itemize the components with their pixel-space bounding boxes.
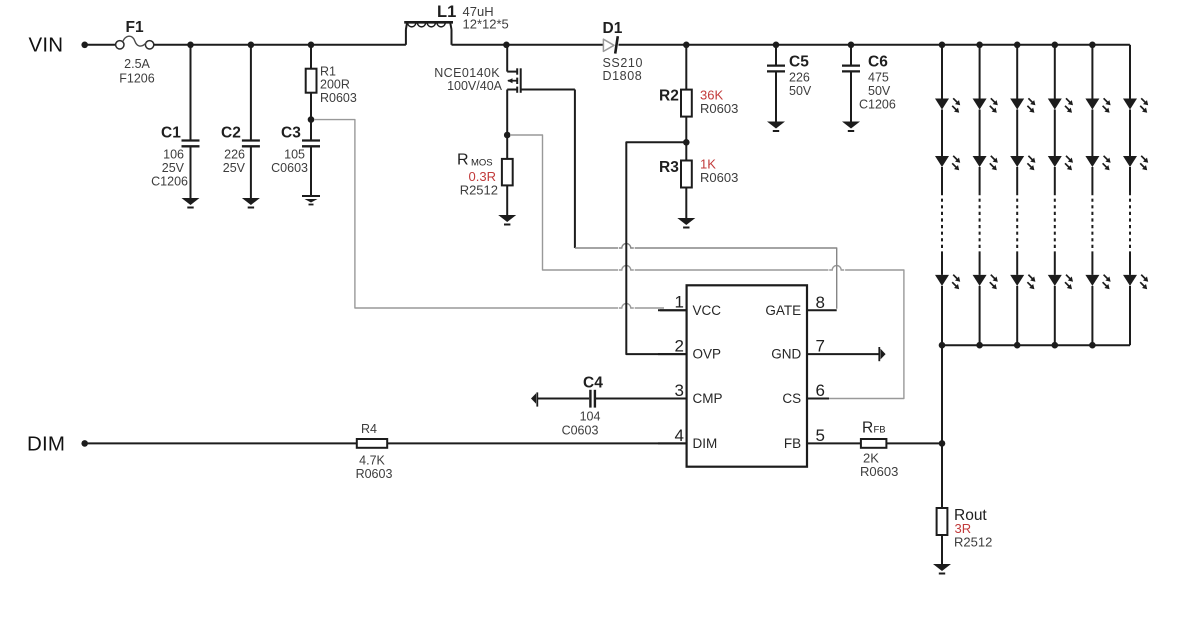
svg-text:VCC: VCC [693,303,722,318]
ground Rout [933,564,951,571]
junction node R1 [308,42,315,49]
LED D1c [935,275,949,286]
LED string 6 wire to dashed [1129,167,1131,192]
svg-text:D1: D1 [603,20,623,37]
svg-text:R0603: R0603 [700,101,738,116]
svg-text:GND: GND [771,347,801,362]
wire CS route (gray) Rmos node to pin 6 [510,135,618,270]
svg-text:25V: 25V [223,161,246,175]
svg-text:R: R [862,420,873,437]
diode D1 [603,39,614,51]
svg-text:R4: R4 [361,422,377,436]
LED string 1 wire top [941,45,943,99]
svg-text:4: 4 [675,426,684,445]
junction node C6 [848,42,855,49]
wire node to D1 anode [506,44,603,46]
svg-text:R0603: R0603 [320,91,357,105]
junction node bottom LED 5 [1089,342,1096,349]
wire pin1 stub black [660,309,687,311]
LED D4c [1048,275,1062,286]
junction node CS sense [504,132,511,139]
ground signal GND pin 7 [878,347,880,361]
LED D6c [1123,275,1137,286]
LED string 3 wire to dashed [1016,167,1018,192]
junction node top LED 2 [976,42,983,49]
LED string 2 wire top [979,45,981,99]
svg-text:226: 226 [224,148,245,162]
LED string 5 wire top [1091,45,1093,99]
svg-text:R: R [457,152,469,169]
LED string 2 wire to dashed [979,167,981,192]
svg-text:6: 6 [816,381,825,400]
wire L1 to MOSFET node [452,44,507,46]
U1 pin 2 stub [658,353,687,355]
LED string 5 dashed continuation [1091,192,1093,254]
svg-text:3: 3 [675,381,684,400]
wire VIN to fuse [85,44,116,46]
svg-text:C0603: C0603 [562,423,599,437]
junction node top LED 5 [1089,42,1096,49]
wire pin 7 to signal ground [807,353,879,355]
LED D2b [973,156,987,167]
junction node OVP divider [683,139,690,146]
svg-text:106: 106 [163,148,184,162]
svg-text:FB: FB [874,425,886,436]
junction node top LED 1 [939,42,946,49]
LED D2c [973,275,987,286]
ground C3 [302,195,320,197]
wire Rfb to FB node [886,442,942,444]
resistor Rmos [506,135,508,159]
svg-text:VIN: VIN [29,34,64,57]
LED string 5 wire bottom [1091,286,1093,345]
wire OVP route divider node to pin 2 [626,142,686,354]
svg-text:C4: C4 [583,374,603,391]
LED string 2 wire bottom [979,286,981,345]
ground signal CMP left [536,392,538,406]
svg-text:DIM: DIM [27,433,65,456]
svg-text:OVP: OVP [693,347,722,362]
LED string 6 wire top [1129,45,1131,99]
transistor Q1 gate lead [521,89,575,91]
wire LED return to FB node [941,345,943,443]
fuse F1 [116,41,124,49]
LED string 4 wire bottom [1054,286,1056,345]
ground C2 [242,198,260,205]
ground R3 [677,218,695,225]
LED string 1 dashed continuation [941,192,943,254]
svg-text:MOS: MOS [471,158,493,169]
resistor Rout [941,443,943,508]
svg-text:R0603: R0603 [860,464,898,479]
svg-text:4.7K: 4.7K [359,454,385,468]
capacitor C2 [250,45,252,141]
LED string 1 wire to dashed [941,167,943,192]
junction node C5 [773,42,780,49]
junction node bottom LED 1 [939,342,946,349]
LED string 2 wire to last [979,254,981,275]
LED D5b [1085,156,1099,167]
svg-text:2: 2 [675,337,684,356]
junction node top LED 3 [1014,42,1021,49]
LED D2a [973,99,987,110]
wire D1 cathode to LED bus right corner [619,44,1130,46]
svg-text:C1206: C1206 [859,98,896,112]
LED D5a [1085,99,1099,110]
svg-text:C1206: C1206 [151,175,188,189]
svg-text:L1: L1 [437,3,456,21]
LED string 1 wire to last [941,254,943,275]
node DIM terminal dot [81,440,88,447]
LED string 6 dashed continuation [1129,192,1131,254]
LED string 3 wire top [1016,45,1018,99]
LED string 4 wire to dashed [1054,167,1056,192]
resistor R4 [357,439,387,448]
wire pin6 stub black [807,398,829,400]
resistor R1 [310,45,312,69]
ground C5 [767,122,785,129]
LED string 2 wire mid [979,110,981,157]
resistor R3 [685,142,687,160]
svg-text:50V: 50V [789,84,812,98]
svg-text:R2512: R2512 [954,535,992,550]
svg-text:100V/40A: 100V/40A [447,79,503,93]
op-amp U1 LED driver IC body [687,285,807,466]
LED D1b [935,156,949,167]
wire R4 to pin 4 [387,442,686,444]
LED D5c [1085,275,1099,286]
LED D3a [1010,99,1024,110]
svg-text:DIM: DIM [693,436,718,451]
svg-text:50V: 50V [868,84,891,98]
svg-text:SS210: SS210 [603,56,644,70]
svg-text:475: 475 [868,71,889,85]
junction node C2 [248,42,255,49]
ground C1 [182,198,200,205]
svg-text:CMP: CMP [693,391,723,406]
capacitor C6 [850,45,852,66]
svg-text:7: 7 [816,337,825,356]
wire LED bottom bus [942,344,1130,346]
LED string 3 dashed continuation [1016,192,1018,254]
svg-text:200R: 200R [320,78,350,92]
svg-text:F1206: F1206 [119,72,154,86]
svg-text:226: 226 [789,71,810,85]
svg-text:5: 5 [816,426,825,445]
LED string 6 wire mid [1129,110,1131,157]
U1 pin 3 stub [658,398,687,400]
wire pin8 stub black [807,309,837,311]
junction node R2 [683,42,690,49]
LED D3c [1010,275,1024,286]
svg-text:R2: R2 [659,88,679,105]
LED string 3 wire bottom [1016,286,1018,345]
LED string 6 wire bottom [1129,286,1131,345]
svg-text:F1: F1 [126,19,144,36]
svg-text:FB: FB [784,436,801,451]
junction node FB/Rout [939,440,946,447]
svg-text:105: 105 [284,148,305,162]
capacitor C5 [775,45,777,66]
svg-text:GATE: GATE [765,303,801,318]
LED string 4 wire top [1054,45,1056,99]
ground Rmos [498,215,516,222]
U1 pin 4 stub [658,442,687,444]
LED string 4 dashed continuation [1054,192,1056,254]
inductor L1 [405,30,407,45]
LED string 3 wire mid [1016,110,1018,157]
LED string 6 wire to last [1129,254,1131,275]
LED D3b [1010,156,1024,167]
LED D4b [1048,156,1062,167]
capacitor C1 [190,45,192,141]
LED D4a [1048,99,1062,110]
svg-text:R1: R1 [320,64,336,78]
svg-text:2.5A: 2.5A [124,57,150,71]
svg-text:R2512: R2512 [460,183,498,198]
LED D1a [935,99,949,110]
transistor Q1 NCE0140K N-MOSFET [506,45,508,72]
resistor R2 [685,45,687,90]
svg-text:C3: C3 [281,125,301,142]
LED D6b [1123,156,1137,167]
LED string 4 wire to last [1054,254,1056,275]
capacitor C4 [538,398,589,400]
wire VCC route (gray) C3 node to pin 1 [314,120,618,308]
LED string 5 wire mid [1091,110,1093,157]
svg-text:C0603: C0603 [271,161,308,175]
junction node bottom LED 2 [976,342,983,349]
LED string 5 wire to last [1091,254,1093,275]
wire DIM to R4 [85,442,357,444]
svg-text:104: 104 [580,410,601,424]
wire GATE route Q1 gate to pin 8 [575,247,618,249]
junction node C3/VCC [308,116,315,123]
wire fuse to L1 [154,44,406,46]
resistor Rfb [861,439,887,448]
capacitor C3 [310,120,312,141]
junction node C1 [187,42,194,49]
svg-text:25V: 25V [162,161,185,175]
U1 pin 1 stub [658,309,687,311]
svg-text:CS: CS [782,391,801,406]
wire pin 5 to Rfb [807,442,861,444]
LED string 4 wire mid [1054,110,1056,157]
junction node MOSFET drain [503,42,510,49]
svg-text:12*12*5: 12*12*5 [463,17,509,32]
svg-text:C2: C2 [221,125,241,142]
node VIN terminal dot [81,42,88,49]
LED string 3 wire to last [1016,254,1018,275]
svg-text:C5: C5 [789,54,809,71]
svg-text:1: 1 [675,293,684,312]
LED string 5 wire to dashed [1091,167,1093,192]
junction node bottom LED 4 [1052,342,1059,349]
svg-text:R0603: R0603 [700,170,738,185]
LED string 2 dashed continuation [979,192,981,254]
junction node bottom LED 3 [1014,342,1021,349]
ground C6 [842,122,860,129]
junction node top LED 4 [1052,42,1059,49]
svg-text:C6: C6 [868,54,888,71]
svg-text:R3: R3 [659,159,679,176]
svg-text:C1: C1 [161,125,181,142]
svg-text:D1808: D1808 [603,69,643,83]
svg-text:R0603: R0603 [356,467,393,481]
LED string 1 wire mid [941,110,943,157]
LED D6a [1123,99,1137,110]
svg-text:8: 8 [816,293,825,312]
LED string 1 wire bottom [941,286,943,345]
